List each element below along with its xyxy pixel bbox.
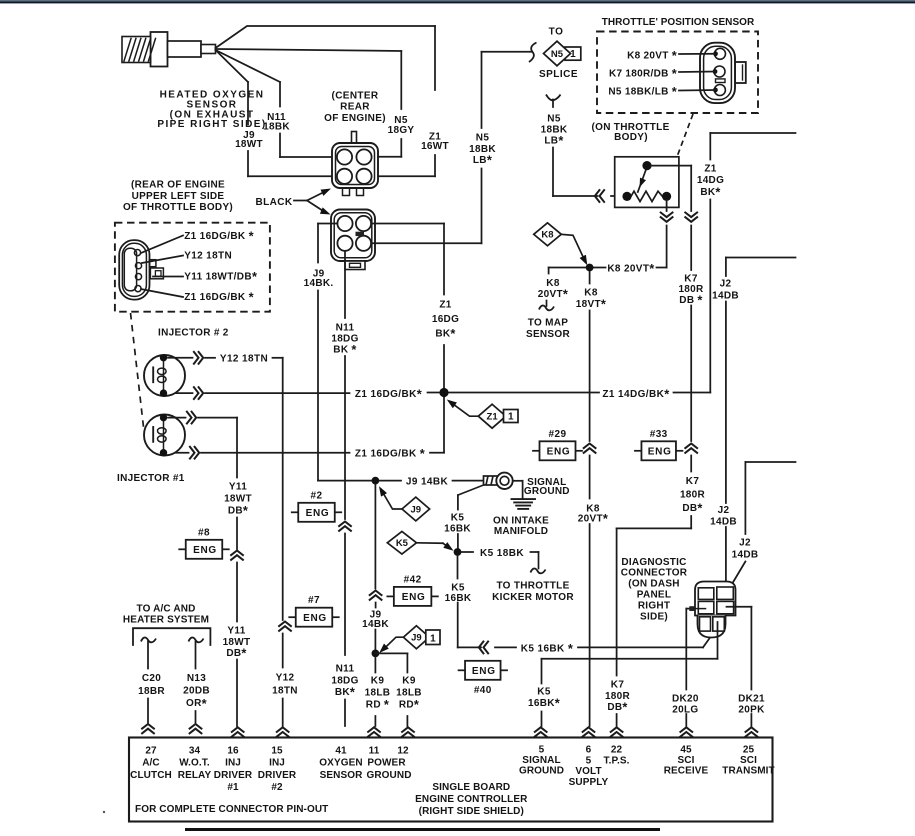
svg-text:Y11: Y11 — [227, 626, 245, 637]
connector center-rear-of-engine (male) — [352, 132, 357, 144]
svg-text:DRIVER: DRIVER — [214, 770, 253, 781]
svg-text:#7: #7 — [308, 595, 320, 606]
arrow K8 to junction — [561, 234, 585, 261]
svg-text:14DB: 14DB — [732, 550, 759, 561]
svg-text:14BK: 14BK — [362, 619, 389, 630]
svg-text:SIDE): SIDE) — [640, 611, 668, 622]
wiper arm with arrow — [638, 169, 647, 193]
ENG box #40 — [459, 669, 466, 671]
TPS connector body — [735, 62, 746, 83]
svg-text:SENSOR: SENSOR — [526, 329, 571, 340]
break chevron Y11 at controller — [232, 727, 244, 732]
svg-text:K8: K8 — [541, 230, 553, 241]
J9 flag diamond with arrow — [402, 497, 430, 521]
svg-text:J2: J2 — [720, 279, 732, 290]
break chevron on K8 below switch — [661, 213, 673, 218]
svg-text:DK20: DK20 — [672, 694, 699, 705]
svg-text:20LG: 20LG — [672, 705, 698, 716]
svg-text:18TN: 18TN — [272, 686, 298, 697]
wire J9 down to lower junction — [374, 485, 376, 589]
break chevron DK20 — [680, 727, 692, 732]
svg-text:OR*: OR* — [186, 696, 207, 711]
svg-text:SPLICE: SPLICE — [539, 69, 578, 80]
wire K5 16BK signal ground from connector — [717, 622, 719, 659]
K8 flag diamond — [534, 223, 562, 246]
svg-text:#40: #40 — [474, 685, 492, 696]
throttle position switch box — [615, 157, 679, 208]
svg-text:K8: K8 — [546, 278, 560, 289]
svg-text:A/C: A/C — [142, 758, 160, 769]
diagnostic connector body — [695, 582, 736, 616]
wire J9 18WT from sensor — [216, 50, 249, 82]
svg-text:SCI: SCI — [740, 755, 757, 766]
svg-text:TO MAP: TO MAP — [528, 318, 569, 329]
svg-text:SENSOR: SENSOR — [320, 770, 364, 781]
heated oxygen sensor symbol — [151, 32, 168, 67]
svg-text:1: 1 — [508, 412, 514, 423]
break chevron Y11 — [187, 412, 192, 424]
svg-text:(CENTER: (CENTER — [332, 91, 379, 102]
break chevron injector2 lower — [194, 387, 199, 399]
svg-text:N11: N11 — [336, 664, 355, 675]
wire N11 18DG/BK from connector to pin 41 — [344, 251, 346, 318]
svg-text:Z1 16DG/BK *: Z1 16DG/BK * — [355, 446, 425, 461]
J9 1 flag diamond with arrow — [403, 626, 429, 649]
break chevron pin 12 — [402, 727, 414, 732]
ENG box #8 — [179, 548, 186, 550]
svg-text:ENG: ENG — [303, 613, 327, 624]
svg-text:K9: K9 — [402, 676, 416, 687]
svg-text:BODY): BODY) — [614, 132, 648, 143]
svg-text:180R: 180R — [680, 489, 706, 500]
svg-text:N5: N5 — [547, 114, 561, 125]
svg-text:Z1 14DG/BK*: Z1 14DG/BK* — [602, 386, 669, 401]
break chevron K7 at controller — [611, 727, 623, 732]
wire N5 18BK/LB from connector to splice — [371, 242, 481, 244]
wire Z1 16DG/BK injector2 horizontal — [168, 392, 193, 394]
svg-text:INJECTOR # 2: INJECTOR # 2 — [158, 327, 229, 338]
svg-text:ENG: ENG — [402, 592, 426, 603]
svg-text:OXYGEN: OXYGEN — [319, 758, 362, 769]
map sensor hook — [546, 301, 548, 307]
svg-text:K7: K7 — [611, 680, 625, 691]
svg-text:15: 15 — [271, 746, 283, 757]
svg-text:20VT*: 20VT* — [578, 511, 608, 526]
svg-text:N5: N5 — [551, 49, 564, 60]
wire K5 from ring to junction — [458, 485, 484, 495]
svg-text:BLACK: BLACK — [256, 197, 293, 208]
svg-text:1: 1 — [430, 634, 436, 645]
Z1 flag diamond with arrow — [478, 404, 506, 428]
svg-text:N5: N5 — [476, 133, 490, 144]
svg-text:GROUND: GROUND — [519, 765, 564, 776]
svg-text:K9: K9 — [371, 676, 385, 687]
svg-text:Y11: Y11 — [229, 482, 247, 493]
svg-text:27: 27 — [145, 746, 157, 757]
wire J2 14DB upper from right — [726, 257, 796, 259]
break chevron injector1 lower — [190, 447, 195, 459]
svg-text:18BR: 18BR — [138, 686, 165, 697]
wire to ground symbol — [513, 480, 523, 482]
svg-text:#29: #29 — [549, 429, 567, 440]
wire K8 from switch resistor — [666, 200, 668, 211]
break chevron DK21 — [746, 727, 758, 732]
svg-text:SIGNAL: SIGNAL — [522, 755, 560, 766]
svg-text:J9: J9 — [411, 504, 422, 515]
single board engine controller box — [129, 738, 773, 822]
wire K5 18BK to throttle kicker — [462, 551, 474, 553]
svg-text:DB*: DB* — [682, 500, 702, 515]
break chevron pin 5 — [535, 727, 547, 732]
svg-text:TO: TO — [549, 27, 564, 38]
svg-text:J2: J2 — [739, 538, 751, 549]
svg-text:K7: K7 — [684, 274, 698, 285]
svg-text:DK21: DK21 — [738, 694, 765, 705]
ENG box #7 — [289, 616, 296, 618]
svg-text:N11: N11 — [336, 323, 355, 334]
svg-text:Y12 18TN: Y12 18TN — [220, 354, 268, 365]
svg-text:(REAR OF ENGINE: (REAR OF ENGINE — [131, 180, 225, 191]
svg-text:#1: #1 — [227, 782, 239, 793]
break chevron Y12 at controller — [277, 727, 289, 732]
svg-text:CLUTCH: CLUTCH — [130, 770, 172, 781]
ring terminal crimp — [484, 476, 498, 485]
svg-text:DB*: DB* — [228, 503, 248, 518]
break chevron on J9 — [370, 591, 382, 596]
svg-text:#42: #42 — [404, 574, 422, 585]
svg-text:UPPER LEFT SIDE: UPPER LEFT SIDE — [132, 191, 225, 202]
svg-text:J2: J2 — [718, 505, 730, 516]
svg-text:SCI: SCI — [678, 755, 695, 766]
svg-text:POWER: POWER — [367, 758, 406, 769]
svg-text:OF ENGINE): OF ENGINE) — [324, 113, 386, 124]
wire J2 14DB lower from right — [745, 461, 795, 463]
break chevron on N11 — [339, 522, 351, 527]
svg-text:BK*: BK* — [700, 185, 720, 200]
svg-text:18BK: 18BK — [541, 125, 568, 136]
svg-text:SINGLE BOARD: SINGLE BOARD — [432, 782, 510, 793]
svg-text:16: 16 — [227, 746, 239, 757]
junction dot K5 — [454, 548, 462, 556]
svg-text:ON INTAKE: ON INTAKE — [493, 515, 549, 526]
dashed box injector connector — [115, 223, 270, 312]
svg-text:RD *: RD * — [366, 697, 389, 712]
svg-text:14BK.: 14BK. — [304, 278, 334, 289]
svg-text:INJ: INJ — [269, 758, 285, 769]
break chevron pin 27 — [142, 724, 154, 729]
svg-text:Z1: Z1 — [704, 164, 716, 175]
wire DK20 from connector — [689, 606, 694, 611]
svg-text:K5: K5 — [451, 513, 465, 524]
svg-text:LB*: LB* — [473, 153, 492, 168]
wire K8 down to controller pin 6 — [589, 272, 591, 284]
svg-text:K5: K5 — [537, 687, 551, 698]
wire J9 14BK from connector to junction — [318, 223, 337, 225]
svg-text:Z1: Z1 — [487, 412, 499, 423]
svg-text:22: 22 — [611, 745, 623, 756]
hook C20 — [141, 638, 156, 643]
break chevron Y12 — [194, 352, 199, 364]
break chevron on Y12 mid — [279, 622, 291, 627]
svg-text:BK*: BK* — [435, 326, 455, 341]
svg-text:VOLT: VOLT — [575, 766, 601, 777]
svg-text:N5 18BK/LB *: N5 18BK/LB * — [608, 84, 677, 99]
injector connector body — [119, 240, 149, 300]
svg-text:RELAY: RELAY — [178, 770, 212, 781]
throttle kicker hook — [538, 552, 540, 569]
wire N5 18GY from sensor — [216, 49, 402, 51]
ENG box #42 — [387, 595, 394, 597]
ENG box #2 — [292, 511, 299, 513]
svg-text:K5 16BK *: K5 16BK * — [521, 641, 574, 656]
svg-text:5: 5 — [539, 745, 545, 756]
svg-text:K7: K7 — [686, 476, 700, 487]
svg-text:5: 5 — [586, 755, 592, 766]
svg-text:18BK: 18BK — [469, 144, 496, 155]
break chevron on K5 horizontal — [484, 642, 489, 654]
svg-text:#2: #2 — [271, 782, 283, 793]
K5 flag diamond with arrow — [387, 532, 416, 555]
svg-text:PANEL: PANEL — [637, 590, 671, 601]
bottom edge partial bar — [185, 828, 660, 831]
wire Y11 18WT/DB from injector1 — [168, 417, 186, 419]
svg-text:LB*: LB* — [544, 133, 563, 148]
svg-text:16BK*: 16BK* — [528, 695, 560, 710]
svg-text:41: 41 — [335, 746, 347, 757]
svg-text:ENG: ENG — [306, 508, 330, 519]
injector #1 — [144, 415, 185, 456]
svg-text:FOR COMPLETE CONNECTOR PIN-OUT: FOR COMPLETE CONNECTOR PIN-OUT — [135, 804, 328, 815]
wire Z1 16WT from sensor — [216, 26, 436, 48]
svg-text:DRIVER: DRIVER — [258, 770, 297, 781]
svg-text:#2: #2 — [311, 490, 323, 501]
wire N11 18BK from sensor — [216, 50, 281, 82]
svg-text:11: 11 — [369, 746, 380, 757]
svg-text:Z1 16DG/BK*: Z1 16DG/BK* — [355, 387, 422, 402]
break chevron pin 34 — [190, 724, 202, 729]
ground symbol — [512, 498, 536, 500]
svg-text:12: 12 — [397, 746, 409, 757]
break chevron on N5 wire — [600, 190, 605, 202]
svg-text:14DB: 14DB — [710, 517, 737, 528]
break chevron K8 at controller — [583, 727, 595, 732]
wire Z1 14DG/BK from right — [710, 132, 795, 134]
junction dot J9 upper — [372, 477, 380, 485]
svg-text:Z1 16DG/BK *: Z1 16DG/BK * — [184, 228, 254, 243]
svg-text:ENG: ENG — [547, 447, 571, 458]
svg-text:CONNECTOR: CONNECTOR — [621, 568, 688, 579]
dashed box throttle position sensor — [597, 32, 758, 114]
svg-text:K8 20VT *: K8 20VT * — [627, 48, 677, 63]
svg-text:#8: #8 — [198, 527, 210, 538]
svg-text:RECEIVE: RECEIVE — [664, 765, 709, 776]
svg-text:SUPPLY: SUPPLY — [569, 777, 609, 788]
svg-text:45: 45 — [680, 745, 692, 756]
svg-text:C20: C20 — [142, 673, 161, 684]
dashed leader to switch — [678, 114, 694, 156]
svg-text:20VT*: 20VT* — [538, 287, 568, 302]
svg-text:RIGHT: RIGHT — [638, 600, 670, 611]
svg-text:TRANSMIT: TRANSMIT — [722, 765, 774, 776]
svg-text:1: 1 — [570, 49, 576, 60]
svg-text:Z1 16DG/BK *: Z1 16DG/BK * — [184, 289, 254, 304]
svg-text:(RIGHT SIDE SHIELD): (RIGHT SIDE SHIELD) — [419, 806, 524, 817]
svg-text:PIPE RIGHT SIDE): PIPE RIGHT SIDE) — [157, 119, 266, 130]
svg-text:T.P.S.: T.P.S. — [604, 756, 630, 767]
break chevron pin 11 — [368, 727, 380, 732]
svg-text:ENG: ENG — [193, 545, 217, 556]
svg-text:TO A/C AND: TO A/C AND — [137, 603, 196, 614]
break chevron on K7 below switch — [685, 213, 697, 218]
svg-text:OF THROTTLE BODY): OF THROTTLE BODY) — [123, 202, 233, 213]
bracket — [133, 628, 210, 645]
svg-text:KICKER MOTOR: KICKER MOTOR — [492, 592, 574, 603]
svg-text:ENG: ENG — [472, 666, 496, 677]
wire Z1 16DG/BK injector1 horizontal — [168, 452, 189, 454]
svg-text:K5: K5 — [396, 538, 409, 549]
wire K7 from switch wiper — [651, 165, 692, 167]
dashed leaders to injectors — [131, 313, 144, 427]
break chevron on Y11 mid — [231, 551, 243, 556]
svg-text:16WT: 16WT — [421, 141, 449, 152]
svg-text:DB*: DB* — [607, 700, 627, 715]
junction dot J9 lower — [372, 650, 380, 658]
potentiometer resistor — [631, 191, 663, 201]
svg-text:Y12: Y12 — [276, 673, 295, 684]
injector #2 — [144, 355, 185, 396]
svg-text:GROUND: GROUND — [524, 486, 570, 497]
break chevron on K8 mid — [584, 444, 596, 449]
svg-text:RD*: RD* — [399, 697, 419, 712]
svg-text:DIAGNOSTIC: DIAGNOSTIC — [621, 557, 686, 568]
svg-text:#33: #33 — [650, 429, 668, 440]
wire K9 to pin 12 — [375, 652, 407, 654]
svg-text:18VT*: 18VT* — [576, 296, 606, 311]
svg-text:18BK: 18BK — [263, 122, 290, 133]
svg-text:34: 34 — [189, 746, 201, 757]
svg-text:16DG: 16DG — [432, 314, 459, 325]
svg-text:6: 6 — [586, 745, 592, 756]
svg-text:K7 180R/DB *: K7 180R/DB * — [609, 66, 677, 81]
wire K8 to map sensor — [549, 267, 586, 269]
svg-text:W.O.T.: W.O.T. — [179, 758, 210, 769]
svg-text:J9 14BK: J9 14BK — [406, 477, 449, 488]
svg-text:ENGINE CONTROLLER: ENGINE CONTROLLER — [415, 794, 528, 805]
connector engine-harness (female) — [331, 210, 375, 262]
svg-text:ENG: ENG — [648, 447, 672, 458]
ring terminal eyelet — [496, 473, 512, 489]
ENG box #29 — [533, 450, 540, 452]
svg-text:INJ: INJ — [225, 758, 241, 769]
svg-text:N13: N13 — [187, 673, 206, 684]
svg-text:BK*: BK* — [335, 685, 355, 700]
svg-text:18GY: 18GY — [388, 125, 415, 136]
wire Y12 18TN from injector2 — [168, 357, 193, 359]
junction dot K8 — [586, 264, 594, 272]
wire DK21 from connector — [727, 606, 752, 608]
svg-text:K8: K8 — [584, 288, 598, 299]
svg-text:THROTTLE' POSITION SENSOR: THROTTLE' POSITION SENSOR — [602, 17, 755, 28]
top window border bar — [0, 0, 915, 1]
svg-text:INJECTOR #1: INJECTOR #1 — [117, 473, 185, 484]
svg-text:Y12 18TN: Y12 18TN — [184, 251, 232, 262]
svg-text:14DB: 14DB — [712, 291, 739, 302]
svg-text:J9: J9 — [411, 633, 422, 644]
svg-text:REAR: REAR — [340, 102, 370, 113]
wire K5 down and right to diagnostic connector — [457, 556, 459, 579]
svg-text:BK *: BK * — [333, 342, 356, 357]
svg-text:MANIFOLD: MANIFOLD — [494, 526, 548, 537]
svg-text:(ON DASH: (ON DASH — [628, 579, 679, 590]
wire N5 18BK/LB to switch — [546, 95, 561, 101]
svg-text:18WT: 18WT — [235, 139, 263, 150]
junction dot Z1 — [440, 389, 448, 397]
stray dot — [103, 811, 105, 813]
svg-text:DB*: DB* — [226, 646, 246, 661]
wire Z1 16DG/BK from connector to junction — [371, 223, 444, 225]
svg-text:25: 25 — [743, 745, 755, 756]
svg-text:K5 18BK: K5 18BK — [480, 548, 524, 559]
svg-text:16BK: 16BK — [444, 523, 471, 534]
hook N13 — [189, 638, 204, 643]
break chevron on K7 mid — [685, 444, 697, 449]
svg-text:HEATER SYSTEM: HEATER SYSTEM — [123, 615, 209, 626]
svg-text:Y11 18WT/DB*: Y11 18WT/DB* — [184, 269, 257, 284]
svg-text:K8 20VT*: K8 20VT* — [607, 261, 654, 276]
wire J9 14BK to ground ring — [379, 480, 401, 482]
wire K9 to pin 11 — [374, 657, 376, 673]
svg-text:TO THROTTLE: TO THROTTLE — [496, 581, 569, 592]
svg-text:GROUND: GROUND — [366, 770, 411, 781]
ENG box #33 — [635, 450, 642, 452]
svg-text:Z1: Z1 — [439, 300, 451, 311]
